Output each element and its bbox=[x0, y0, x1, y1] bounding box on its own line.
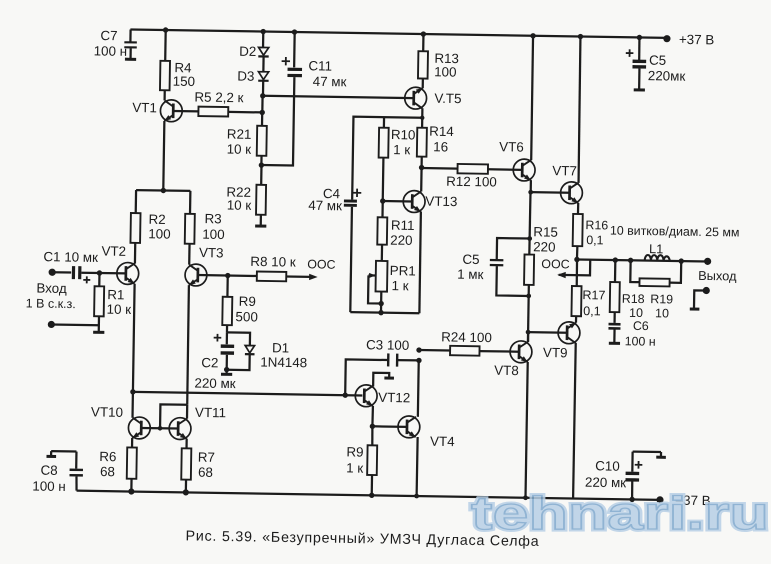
svg-text:C10: C10 bbox=[595, 458, 620, 473]
resistor R14 16 bbox=[417, 123, 455, 157]
capacitor C4 47 мк bbox=[308, 186, 361, 214]
capacitor C10 220 мк bbox=[585, 451, 661, 500]
wire input to C1 bbox=[52, 271, 71, 274]
wire R4 to VT1 collector bbox=[163, 90, 165, 100]
wire VT8 base to R24 bbox=[479, 350, 519, 353]
junction VT6 bus/top rail bbox=[530, 33, 535, 38]
ground stub VT12 collector bbox=[384, 376, 394, 379]
wire R18 to C6 bbox=[613, 312, 615, 323]
wire C2 bottom bbox=[226, 355, 228, 370]
svg-text:ООС: ООС bbox=[541, 257, 569, 271]
wire R13 to VT5 collector bbox=[422, 79, 424, 89]
svg-text:C11: C11 bbox=[308, 58, 332, 73]
wire VT11 emitter to R7 bbox=[185, 439, 187, 449]
wire D3 to node A bbox=[262, 81, 264, 96]
junction VT8 collector/VT9 base bbox=[526, 330, 531, 335]
wire output line bbox=[577, 259, 708, 261]
wire VT10 emitter to R6 bbox=[131, 438, 133, 448]
svg-text:PR1: PR1 bbox=[390, 263, 416, 278]
wire VT4 emitter to bottom rail bbox=[417, 437, 418, 496]
wire PR1 bottom bbox=[380, 292, 383, 313]
diode D3 bbox=[237, 69, 269, 84]
junction R5/R21 bbox=[259, 110, 264, 115]
wire R17 to VT9 collector bbox=[575, 316, 577, 323]
diode D1 1N4148 bbox=[226, 332, 307, 371]
wire VT2 emitter long line to VT12 base bbox=[133, 392, 362, 396]
junction VT7 bus/top rail bbox=[578, 34, 583, 39]
svg-text:10 витков/диам. 25 мм: 10 витков/диам. 25 мм bbox=[610, 224, 740, 240]
svg-text:VT2: VT2 bbox=[101, 244, 126, 259]
svg-text:220: 220 bbox=[390, 233, 413, 248]
wire VT1 emitter down bbox=[163, 121, 164, 190]
svg-text:16: 16 bbox=[433, 139, 448, 154]
svg-text:C3 100: C3 100 bbox=[366, 337, 409, 353]
wire C4 to VAS bottom line bbox=[350, 207, 352, 312]
svg-text:ООС: ООС bbox=[307, 257, 335, 271]
svg-text:1 мк: 1 мк bbox=[457, 267, 484, 282]
wire VT13 collector up bbox=[420, 168, 423, 192]
wire VT7 collector to rail bbox=[578, 37, 581, 183]
wire R2 to VT2 collector bbox=[134, 243, 137, 264]
transistor VT13 bbox=[403, 190, 457, 213]
junction VAS bottom bbox=[378, 310, 383, 315]
svg-text:VT12: VT12 bbox=[378, 390, 410, 406]
transistor VT6 bbox=[499, 139, 536, 181]
svg-text:100 н: 100 н bbox=[94, 43, 128, 59]
wire VT8 emitter to bottom rail bbox=[525, 362, 527, 498]
ground stub below C7 bbox=[125, 58, 136, 61]
svg-text:VT6: VT6 bbox=[499, 139, 524, 154]
ground stub below R22 bbox=[255, 224, 266, 227]
transistor VT11 bbox=[169, 404, 226, 440]
wire VT11 collector bbox=[186, 405, 188, 419]
resistor R10 1 к bbox=[379, 127, 416, 158]
svg-text:VT10: VT10 bbox=[91, 404, 123, 420]
resistor R12 100 bbox=[446, 164, 497, 190]
svg-text:R21: R21 bbox=[227, 126, 252, 141]
wire R9 to C2/D1 node bbox=[226, 325, 228, 332]
junction VT1 emitter/ladder bbox=[161, 188, 166, 193]
svg-text:C8: C8 bbox=[40, 463, 57, 478]
svg-text:VT1: VT1 bbox=[132, 100, 157, 115]
svg-text:0,1: 0,1 bbox=[583, 304, 601, 318]
junction R19 right bbox=[678, 258, 683, 263]
svg-text:R24 100: R24 100 bbox=[441, 329, 492, 345]
input terminal bbox=[26, 268, 77, 311]
wire -37V bottom rail bbox=[77, 491, 660, 500]
resistor R22 10 к bbox=[226, 165, 266, 215]
wire R12 to VT6 base bbox=[488, 168, 522, 171]
feedback tap ООС (right) bbox=[541, 257, 590, 279]
wire R21 to node C bbox=[260, 156, 262, 165]
wire R18 top lead bbox=[614, 260, 617, 282]
svg-text:C5: C5 bbox=[649, 53, 666, 68]
svg-text:C7: C7 bbox=[100, 28, 117, 43]
wire D2 to D3 bbox=[262, 56, 264, 71]
resistor R16 0,1 bbox=[573, 214, 609, 248]
svg-text:R7: R7 bbox=[198, 450, 215, 465]
wire VT6 emitter down bbox=[530, 180, 532, 192]
wire R11 to PR1 bbox=[381, 245, 384, 261]
svg-text:R2: R2 bbox=[148, 212, 165, 227]
resistor R8 10 к bbox=[250, 254, 296, 282]
svg-text:R3: R3 bbox=[204, 211, 221, 226]
junction R14/R12/VT13 bbox=[419, 165, 424, 170]
wire R16 to output node bbox=[576, 246, 579, 259]
resistor R17 0,1 bbox=[571, 286, 605, 318]
wire R9 to bottom rail bbox=[371, 475, 374, 495]
node C bbox=[259, 162, 264, 167]
svg-text:10 к: 10 к bbox=[227, 141, 252, 156]
svg-text:R5 2,2 к: R5 2,2 к bbox=[194, 89, 243, 105]
wire C11 to node C jog bbox=[261, 77, 294, 166]
svg-text:C1 10 мк: C1 10 мк bbox=[43, 249, 98, 265]
svg-text:R8 10 к: R8 10 к bbox=[250, 254, 296, 270]
svg-text:R18: R18 bbox=[622, 292, 645, 306]
svg-text:tehnari.ru: tehnari.ru bbox=[471, 487, 769, 539]
svg-text:VT3: VT3 bbox=[199, 245, 224, 260]
svg-text:10 к: 10 к bbox=[106, 302, 131, 317]
output return terminal bbox=[694, 287, 710, 309]
transistor VT7 bbox=[552, 163, 583, 204]
wire VT12 emitter to VT4 base bbox=[372, 425, 407, 428]
power terminal +37 В bbox=[663, 32, 714, 48]
junction C5/top rail bbox=[637, 35, 642, 40]
junction VT6 emitter/VT7 base bbox=[528, 190, 533, 195]
transistor VT2 bbox=[101, 244, 139, 285]
svg-text:Выход: Выход bbox=[698, 268, 737, 284]
trimmer PR1 1 к bbox=[368, 261, 416, 304]
wire C1 to VT2 base bbox=[81, 272, 125, 275]
wire VAS bottom line bbox=[350, 312, 419, 313]
ground stub below R1 bbox=[93, 331, 104, 334]
resistor R2 100 bbox=[130, 211, 171, 243]
ground stub below C5 bbox=[634, 88, 645, 91]
svg-text:R6: R6 bbox=[99, 449, 116, 464]
wire R1 bottom bbox=[98, 316, 100, 331]
resistor R19 10 (parallel to L1) bbox=[630, 260, 682, 320]
wire VT10 base to VT11 base bbox=[141, 427, 178, 430]
resistor R7 68 bbox=[181, 448, 215, 480]
svg-text:1 к: 1 к bbox=[391, 278, 408, 293]
svg-text:100: 100 bbox=[148, 226, 171, 241]
svg-text:1 к: 1 к bbox=[393, 142, 410, 157]
svg-text:R16: R16 bbox=[585, 218, 608, 232]
svg-text:0,1: 0,1 bbox=[586, 233, 604, 247]
junction R19 left bbox=[628, 258, 633, 263]
junction R7/rail bbox=[183, 489, 189, 495]
resistor R24 100 bbox=[441, 329, 492, 355]
resistor R9 1 к bbox=[346, 426, 377, 476]
junction long line/C3 bbox=[342, 392, 347, 397]
wire VT8 collector up bbox=[527, 332, 530, 342]
junction C3 right bbox=[416, 358, 421, 363]
junction R18 top bbox=[613, 257, 618, 262]
wire to VT7 base bbox=[531, 191, 570, 194]
junction R9/rail bbox=[369, 493, 374, 498]
svg-text:V.T5: V.T5 bbox=[434, 91, 461, 106]
wire VT6 collector to rail bbox=[531, 36, 533, 160]
svg-text:R14: R14 bbox=[429, 124, 454, 139]
svg-text:VT13: VT13 bbox=[425, 194, 457, 210]
transistor VT3 bbox=[185, 245, 224, 286]
svg-text:220мк: 220мк bbox=[648, 68, 686, 84]
ground stub C8 bbox=[46, 455, 56, 458]
resistor R6 68 bbox=[99, 447, 137, 480]
svg-text:C5: C5 bbox=[462, 252, 479, 267]
wire mirror base staple bbox=[160, 404, 187, 428]
svg-text:R9: R9 bbox=[346, 444, 363, 459]
resistor R9 500 bbox=[222, 275, 258, 325]
wire VT1 base to R5 bbox=[173, 110, 198, 113]
collector stub VT12 bbox=[373, 373, 389, 387]
svg-text:1 В с.к.з.: 1 В с.к.з. bbox=[26, 296, 76, 311]
resistor R21 10 к bbox=[227, 112, 267, 157]
junction R13/top rail bbox=[421, 31, 426, 36]
junction output node bbox=[574, 257, 579, 262]
resistor R18 10 bbox=[610, 282, 645, 320]
capacitor C11 47 мк bbox=[281, 32, 347, 90]
junction long line bbox=[130, 389, 135, 394]
svg-text:68: 68 bbox=[198, 465, 213, 480]
wire R17 top lead bbox=[576, 260, 579, 287]
wire R22 to stub bbox=[260, 215, 262, 226]
resistor R15 220 bbox=[524, 224, 558, 285]
svg-text:68: 68 bbox=[100, 464, 115, 479]
power terminal -37 В bbox=[656, 492, 711, 508]
junction R24/VAS column bbox=[416, 347, 421, 352]
wire base junction to VT13 bbox=[383, 200, 412, 203]
resistor R11 220 bbox=[377, 201, 415, 248]
junction PR1/wiper bbox=[378, 301, 383, 306]
wire VT2 emitter down bbox=[133, 284, 135, 418]
svg-text:R11: R11 bbox=[391, 218, 415, 233]
svg-text:R12 100: R12 100 bbox=[446, 174, 497, 190]
svg-text:R19: R19 bbox=[650, 292, 673, 306]
junction C5/R15 bottom bbox=[526, 294, 531, 299]
capacitor C8 100 н bbox=[32, 451, 83, 494]
wire ladder R2/R3 bbox=[136, 190, 191, 214]
inductor L1 bbox=[609, 224, 739, 263]
junction C11/top rail bbox=[292, 29, 297, 34]
wire VT13 emitter down to VAS bottom bbox=[419, 212, 421, 314]
watermark tehnari.ru bbox=[471, 487, 769, 539]
wire R12 left lead bbox=[422, 167, 458, 170]
wire R15 to VT8 collector bbox=[527, 285, 530, 342]
svg-text:R9: R9 bbox=[239, 294, 256, 309]
junction C10/rail bbox=[629, 497, 634, 502]
capacitor C1 10 мк bbox=[43, 249, 98, 283]
wire VT3 base to R8 row bbox=[198, 274, 257, 277]
junction C5/R15 top bbox=[527, 236, 532, 241]
svg-text:1N4148: 1N4148 bbox=[260, 355, 307, 371]
transistor VT4 bbox=[398, 416, 456, 449]
svg-text:C6: C6 bbox=[633, 319, 649, 333]
capacitor C3 100 bbox=[366, 337, 410, 367]
wire R7 to bottom rail bbox=[185, 480, 187, 493]
wire VT9 base line bbox=[528, 331, 567, 334]
svg-text:10 к: 10 к bbox=[227, 197, 252, 212]
junction VT8/rail bbox=[523, 495, 528, 500]
svg-text:1 к: 1 к bbox=[346, 460, 363, 475]
junction R9-500 top bbox=[225, 273, 230, 278]
resistor R5 2,2 к bbox=[194, 89, 244, 116]
svg-text:R1: R1 bbox=[107, 287, 124, 302]
transistor VT5 bbox=[405, 87, 462, 110]
diode D2 bbox=[239, 44, 269, 59]
ground stub below C6 bbox=[609, 342, 620, 345]
wire VAS top line bbox=[352, 117, 422, 201]
wire R10 top lead bbox=[383, 117, 385, 128]
wire node A down to R5 node bbox=[261, 96, 264, 113]
wire R5 to diode column bbox=[228, 111, 262, 114]
junction VAS top line bbox=[420, 116, 424, 120]
lower input terminal bbox=[48, 321, 55, 328]
capacitor C5 1 мк bbox=[457, 237, 530, 296]
junction VT4/rail bbox=[414, 494, 419, 499]
svg-text:150: 150 bbox=[173, 74, 196, 89]
svg-text:C2: C2 bbox=[201, 355, 218, 370]
svg-text:D2: D2 bbox=[239, 44, 256, 59]
wire R10 to VT13 base junction bbox=[382, 158, 385, 201]
svg-text:100: 100 bbox=[434, 64, 457, 79]
svg-text:D1: D1 bbox=[272, 340, 289, 355]
capacitor C7 bbox=[94, 28, 138, 59]
wire VT6 emitter to R15 bbox=[529, 192, 530, 254]
svg-text:L1: L1 bbox=[649, 241, 663, 256]
svg-text:VT4: VT4 bbox=[430, 434, 455, 449]
node A (bias node) bbox=[260, 93, 265, 98]
wire VT7 emitter to R16 bbox=[577, 203, 580, 214]
svg-text:D3: D3 bbox=[237, 69, 254, 84]
output terminal Выход bbox=[698, 258, 737, 284]
wire R14 to R12 junction bbox=[420, 157, 422, 168]
resistor R3 100 bbox=[185, 211, 225, 244]
svg-text:VT8: VT8 bbox=[494, 363, 519, 378]
svg-text:220 мк: 220 мк bbox=[194, 376, 235, 392]
junction D2/top rail bbox=[260, 29, 265, 34]
wire C3 left lead to long line bbox=[345, 359, 388, 395]
wire C3 right lead bbox=[397, 359, 419, 362]
ground stub output return bbox=[690, 307, 700, 310]
ground stub below C2 bbox=[221, 370, 232, 375]
svg-text:47 мк: 47 мк bbox=[308, 198, 342, 214]
junction C2/D1 bottom bbox=[224, 367, 229, 372]
transistor VT8 bbox=[494, 341, 532, 379]
wire VT9 emitter to bottom rail bbox=[573, 343, 576, 499]
junction VT13 base bbox=[380, 198, 385, 203]
transistor VT9 bbox=[543, 321, 580, 360]
wire rail to D2 bbox=[262, 32, 264, 48]
resistor R4 150 bbox=[160, 30, 196, 91]
svg-text:+37 В: +37 В bbox=[679, 32, 715, 48]
resistor R1 10 к bbox=[94, 273, 132, 317]
svg-text:10: 10 bbox=[629, 306, 643, 320]
wire VT4 collector up bbox=[417, 360, 420, 416]
svg-text:100: 100 bbox=[202, 227, 225, 242]
junction VT12/R9 bbox=[370, 424, 375, 429]
wire VT5 emitter to R14 bbox=[421, 108, 424, 127]
wire VT12 emitter down bbox=[371, 406, 374, 426]
wire +37V top rail bbox=[130, 29, 667, 37]
capacitor C2 220 мк bbox=[194, 332, 236, 391]
feedback arrow ООС (left) bbox=[286, 257, 336, 281]
wire node A to VT5 base bbox=[263, 96, 414, 98]
wire R24 left lead bbox=[419, 349, 450, 352]
svg-text:R10: R10 bbox=[391, 127, 416, 142]
svg-text:100 н: 100 н bbox=[32, 478, 66, 494]
svg-text:500: 500 bbox=[235, 309, 258, 324]
ground stub C10 bbox=[656, 456, 666, 459]
wire R3 to VT3 collector bbox=[188, 244, 191, 265]
junction mirror bases bbox=[158, 426, 163, 431]
junction R4/top rail bbox=[163, 27, 168, 32]
svg-text:Вход: Вход bbox=[36, 281, 67, 296]
wire lower input to R1 bbox=[51, 323, 98, 326]
transistor VT10 bbox=[91, 404, 151, 439]
svg-text:VT7: VT7 bbox=[552, 163, 577, 178]
transistor VT1 bbox=[132, 99, 182, 122]
transistor VT12 bbox=[355, 385, 410, 408]
resistor R13 100 bbox=[418, 34, 459, 80]
svg-text:10: 10 bbox=[655, 306, 669, 320]
capacitor C6 100 н bbox=[608, 319, 656, 349]
svg-text:VT9: VT9 bbox=[543, 345, 568, 360]
capacitor C5 220 мк bbox=[625, 37, 686, 90]
junction R1 top bbox=[97, 270, 102, 275]
svg-text:R15: R15 bbox=[533, 224, 558, 239]
wire R6 to bottom rail bbox=[130, 479, 132, 492]
junction R6/rail bbox=[128, 488, 134, 494]
svg-text:VT11: VT11 bbox=[195, 405, 226, 420]
svg-text:47 мк: 47 мк bbox=[313, 74, 347, 90]
wire VT3 emitter down bbox=[187, 285, 189, 405]
svg-text:R17: R17 bbox=[582, 288, 605, 302]
svg-text:220: 220 bbox=[533, 239, 556, 254]
svg-text:100 н: 100 н bbox=[625, 334, 656, 348]
